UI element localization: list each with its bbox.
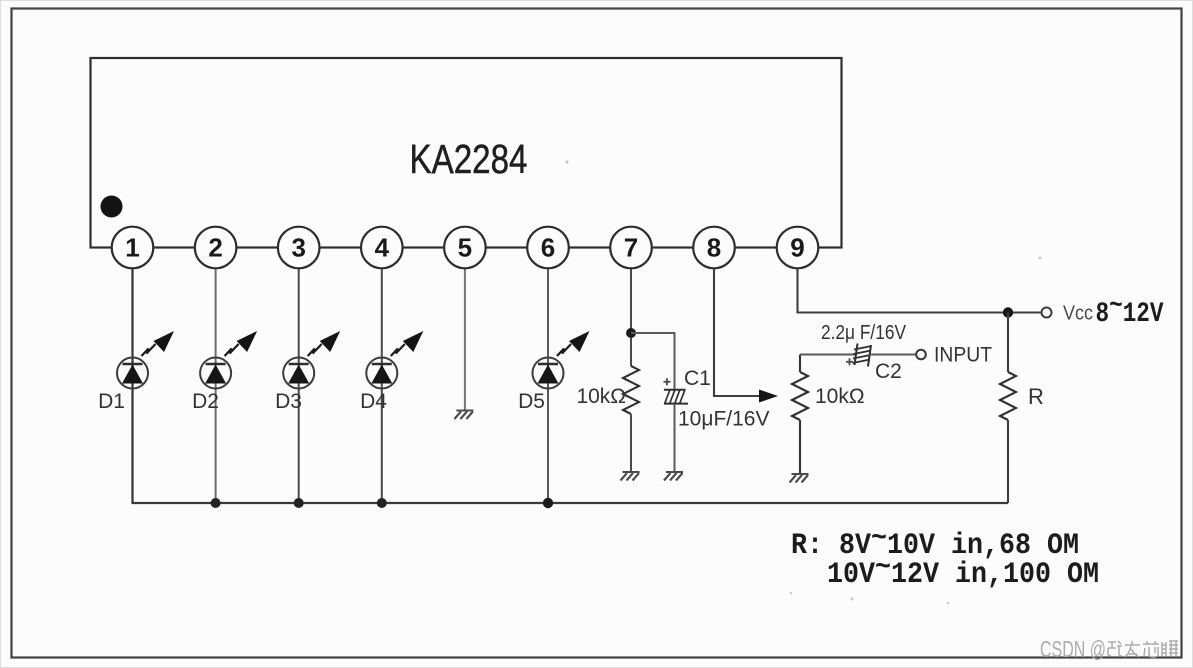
pin 5: [444, 227, 486, 269]
junction node pin7 branch: [626, 328, 636, 338]
C1 plus sign: [664, 378, 671, 385]
svg-text:2.2μ F/16V: 2.2μ F/16V: [821, 322, 907, 344]
wire junction to C1 top: [631, 333, 675, 390]
svg-text:R: R: [1028, 384, 1044, 409]
svg-text:1: 1: [125, 233, 139, 263]
svg-text:D5: D5: [518, 390, 545, 413]
wire resistor to ground: [630, 414, 632, 472]
ground at pin5: [454, 411, 473, 420]
wire pin8 down and right: [714, 268, 762, 396]
pin 7: [610, 227, 652, 269]
pin 6: [527, 227, 569, 269]
wire pin5 down: [464, 268, 466, 410]
wire pin3 down: [298, 268, 300, 503]
capacitor C2 electrolytic plates: [853, 344, 872, 367]
svg-text:CSDN @: CSDN @: [1040, 636, 1106, 662]
arrow to potentiometer wiper: [759, 390, 778, 403]
svg-text:5: 5: [458, 233, 472, 263]
pin 9: [777, 227, 819, 269]
wire R to bottom bus: [1007, 420, 1009, 503]
resistor R zigzag: [1000, 372, 1016, 420]
svg-text:INPUT: INPUT: [934, 344, 992, 367]
wire pin2 down: [215, 268, 217, 503]
svg-text:C2: C2: [875, 360, 902, 383]
svg-text:R: 8V~10V in,68 OM: R: 8V~10V in,68 OM: [791, 522, 1079, 563]
wire pin6 down: [547, 268, 549, 503]
pin 1: [112, 227, 154, 269]
svg-text:6: 6: [541, 233, 555, 263]
svg-text:KA2284: KA2284: [410, 136, 528, 182]
pin 3: [278, 227, 320, 269]
junction node Vcc/R: [1003, 307, 1013, 317]
potentiometer 10k zigzag: [792, 372, 808, 420]
ground below potentiometer: [790, 474, 809, 483]
pin 4: [361, 227, 403, 269]
svg-text:3: 3: [291, 233, 305, 263]
IC U1 body KA2284: [91, 58, 842, 248]
svg-text:4: 4: [375, 233, 390, 263]
watermark CJK glyph lv: [1108, 641, 1122, 656]
wire pot top to C2: [800, 354, 856, 356]
ground below C1: [664, 472, 683, 481]
junction node pin2/bus: [211, 498, 221, 508]
LED D5: [533, 331, 590, 389]
wire C1 to ground: [674, 404, 676, 472]
svg-text:C1: C1: [684, 367, 711, 390]
svg-text:9: 9: [790, 233, 804, 263]
svg-text:D1: D1: [98, 390, 125, 413]
capacitor C1 electrolytic plates: [664, 390, 688, 405]
svg-text:10kΩ: 10kΩ: [576, 385, 626, 408]
pin 8: [693, 227, 735, 269]
wire C2 to INPUT terminal: [870, 354, 917, 356]
junction node pin3/bus: [294, 498, 304, 508]
C2 plus sign: [846, 358, 853, 365]
wire pin9 to Vcc terminal: [798, 268, 1041, 313]
INPUT terminal circle: [916, 350, 926, 360]
svg-text:D4: D4: [360, 390, 387, 413]
wire pot to ground: [799, 420, 801, 474]
svg-text:10V~12V in,100 OM: 10V~12V in,100 OM: [827, 551, 1099, 592]
Vcc terminal circle: [1042, 308, 1052, 318]
wire junction down to R: [1007, 313, 1009, 373]
wire pin1 to bottom bus and bus to R bottom: [133, 268, 1009, 503]
watermark CJK glyph diao: [1162, 641, 1178, 656]
svg-text:10kΩ: 10kΩ: [815, 385, 865, 408]
pin 1 index dot: [101, 196, 123, 218]
LED D3: [283, 331, 340, 389]
potentiometer 10k top stub: [799, 355, 801, 373]
svg-text:8: 8: [707, 233, 721, 263]
svg-text:D2: D2: [192, 390, 219, 413]
wire pin7 down: [630, 268, 632, 366]
junction node pin6/bus: [543, 498, 553, 508]
svg-text:D3: D3: [275, 390, 302, 413]
LED D2: [200, 331, 257, 389]
svg-text:10μF/16V: 10μF/16V: [678, 408, 770, 431]
junction node pin4/bus: [377, 498, 387, 508]
watermark CJK glyph hua: [1143, 641, 1159, 657]
watermark CJK glyph you: [1125, 641, 1140, 657]
LED D1: [117, 331, 174, 389]
wire pin4 down: [381, 268, 383, 503]
scan specks: [565, 160, 1041, 604]
resistor R10k (pin7): [623, 366, 639, 414]
svg-text:2: 2: [208, 233, 222, 263]
svg-text:7: 7: [624, 233, 638, 263]
svg-text:Vcc: Vcc: [1063, 302, 1093, 325]
pin 2: [195, 227, 237, 269]
ground below 10k resistor: [621, 472, 640, 481]
LED D4: [366, 331, 423, 389]
